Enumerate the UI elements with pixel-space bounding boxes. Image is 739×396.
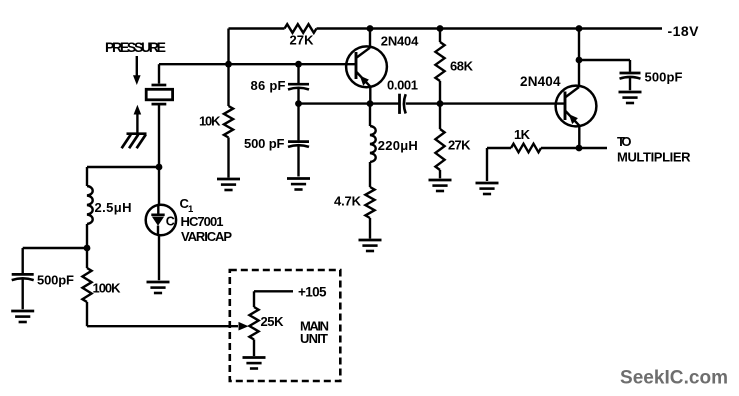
ground below varicap xyxy=(147,281,170,284)
capacitor 86pF xyxy=(297,64,299,83)
wire to left 500pF xyxy=(23,247,87,249)
svg-text:500pF: 500pF xyxy=(645,70,683,85)
wire rail2 to Q2 base xyxy=(406,102,565,104)
svg-text:UNIT: UNIT xyxy=(300,331,328,346)
node Q1 emitter on rail2 xyxy=(367,100,374,107)
node Q2 emitter output xyxy=(576,145,583,152)
svg-text:PRESSURE: PRESSURE xyxy=(105,39,166,55)
svg-text:86 pF: 86 pF xyxy=(251,78,286,93)
wire varicap to ground xyxy=(158,235,160,280)
wire horizontal to 2.5uH branch xyxy=(87,166,159,168)
wire top rail left segment xyxy=(229,27,285,29)
svg-text:MULTIPLIER: MULTIPLIER xyxy=(617,150,691,165)
resistor 100K xyxy=(86,248,88,268)
node 68K top on rail xyxy=(437,25,444,32)
node base-line junction at 10K top xyxy=(225,61,232,68)
varicap C1 HC7001 xyxy=(146,205,176,235)
node Q1 collector on rail xyxy=(367,25,374,32)
node junction 2.5uH / 500pF / 100K xyxy=(84,245,91,252)
transistor Q2 2N404 xyxy=(556,86,597,127)
pressure arrow (down) xyxy=(136,56,138,76)
node 68K/27K junction on rail2 xyxy=(437,100,444,107)
node Q2 collector 500pF branch xyxy=(576,57,583,64)
capacitor 500pF (left) xyxy=(12,273,34,276)
MAIN UNIT dashed box xyxy=(230,270,340,381)
inductor 2.5uH xyxy=(86,167,88,186)
wire 100K down and right to 25K pot (wiper arrow) xyxy=(86,302,88,326)
ground below 1K xyxy=(476,182,499,185)
capacitor 500pF (right) xyxy=(579,59,630,61)
wire base line y=64 xyxy=(159,63,356,65)
svg-text:68K: 68K xyxy=(450,58,474,73)
svg-text:27K: 27K xyxy=(448,138,471,153)
svg-text:0.001: 0.001 xyxy=(387,77,418,92)
resistor 1K xyxy=(487,147,511,149)
svg-text:C: C xyxy=(166,215,175,229)
ground below 4.7K xyxy=(359,239,382,242)
ground below mid 500pF xyxy=(287,177,310,180)
wire crystal bottom to varicap xyxy=(158,104,160,205)
svg-text:4.7K: 4.7K xyxy=(334,194,362,209)
node 86pF top junction xyxy=(295,61,302,68)
resistor 27K (top, horizontal) xyxy=(285,24,317,33)
resistor 27K (second) xyxy=(439,104,441,129)
resistor 68K xyxy=(435,42,444,81)
wire 10K to ground xyxy=(227,138,229,178)
pot wiper arrow xyxy=(239,322,249,331)
potentiometer 25K xyxy=(253,291,255,307)
node rail2 left junction xyxy=(295,100,302,107)
crystal transducer top lead xyxy=(158,64,160,83)
ground below 27K xyxy=(429,179,452,182)
resistor 10K xyxy=(224,106,233,138)
ground below 25K xyxy=(243,356,266,359)
svg-text:2.5μH: 2.5μH xyxy=(95,200,132,215)
inductor 220uH xyxy=(369,104,371,126)
capacitor 500pF (mid) xyxy=(297,104,299,141)
svg-text:SeekIC.com: SeekIC.com xyxy=(620,368,728,389)
wire rail2 xyxy=(299,102,400,104)
wire top rail -18V segment xyxy=(317,27,663,29)
chassis ground (hatched) xyxy=(127,132,147,135)
svg-text:25K: 25K xyxy=(261,314,285,329)
crystal top plate xyxy=(152,84,167,87)
node junction crystal branch / 2.5uH branch xyxy=(156,164,163,171)
svg-text:1K: 1K xyxy=(514,127,531,142)
ground below left 500pF xyxy=(11,310,34,313)
node Q2 collector on rail xyxy=(576,25,583,32)
svg-text:HC7001: HC7001 xyxy=(181,214,224,229)
crystal bottom plate xyxy=(152,103,167,106)
svg-text:100K: 100K xyxy=(93,280,122,295)
ground below 10K xyxy=(217,178,240,181)
pressure arrow (up) xyxy=(136,114,138,134)
svg-text:2N404: 2N404 xyxy=(381,34,419,49)
svg-text:500 pF: 500 pF xyxy=(244,136,285,151)
resistor 4.7K xyxy=(365,187,374,218)
svg-text:2N404: 2N404 xyxy=(520,74,561,89)
wire rail to 68K xyxy=(439,29,441,43)
svg-text:10K: 10K xyxy=(199,114,221,129)
svg-text:220μH: 220μH xyxy=(378,138,418,153)
svg-text:-18V: -18V xyxy=(668,23,700,39)
svg-text:27K: 27K xyxy=(290,33,315,48)
capacitor 0.001 (series) xyxy=(398,94,401,114)
svg-text:+105: +105 xyxy=(298,285,327,300)
transistor Q1 2N404 xyxy=(346,46,387,87)
svg-text:500pF: 500pF xyxy=(37,273,74,288)
crystal body xyxy=(146,89,172,100)
wire left vertical from rail to 10K xyxy=(227,29,229,107)
ground below right 500pF xyxy=(619,91,642,94)
svg-text:TO: TO xyxy=(617,134,632,149)
svg-text:VARICAP: VARICAP xyxy=(181,229,232,244)
